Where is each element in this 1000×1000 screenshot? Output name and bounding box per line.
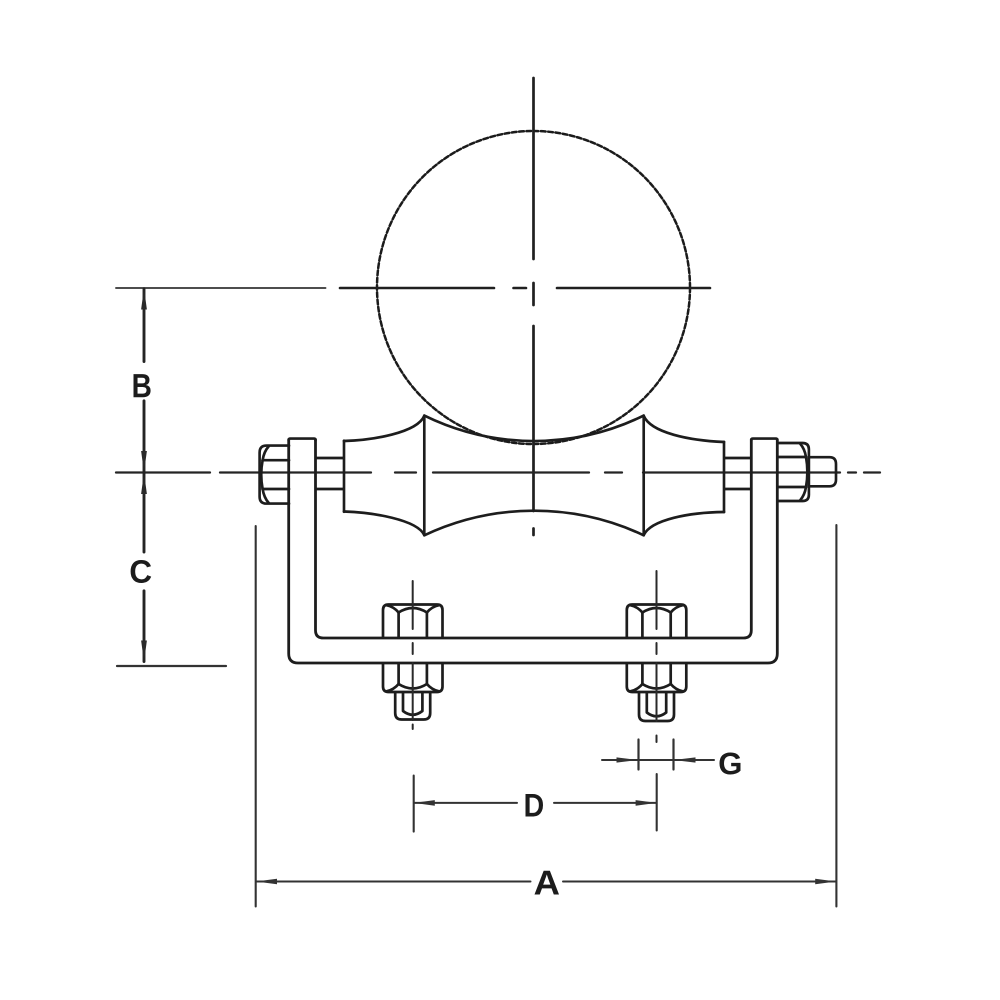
bottom-right flare <box>644 512 724 535</box>
dimension G line <box>602 759 714 761</box>
dimension D arrows <box>414 800 657 806</box>
dimension G arrows <box>617 757 696 762</box>
axle bolt tip (right) <box>810 457 837 486</box>
left bolt centerline <box>412 581 414 729</box>
bottom-left flare <box>344 512 424 536</box>
left bolt tip (bottom) <box>395 693 430 720</box>
pipe vertical centerline <box>532 78 535 535</box>
right bolt upper hex nut <box>627 605 687 638</box>
left axle shaft <box>317 458 344 489</box>
roller spool body <box>344 416 724 536</box>
right upright top cap <box>751 439 777 441</box>
dimension G extension ticks <box>639 740 674 770</box>
left bolt upper hex nut <box>383 605 443 638</box>
throat top arc <box>424 416 643 441</box>
dimension D line <box>414 802 656 804</box>
left upright top cap <box>289 439 316 441</box>
dimension A line <box>256 881 836 883</box>
dimension B line <box>143 289 146 472</box>
axle hex head (left) <box>260 446 289 504</box>
pipe (dashed circle) <box>377 131 690 444</box>
pipe horizontal centerline <box>340 287 710 290</box>
dimension A arrows <box>256 879 836 885</box>
top-left flare <box>344 416 424 441</box>
axle hex nut (right) <box>778 443 809 501</box>
bracket outer outline <box>289 440 778 664</box>
throat bottom arc <box>424 511 643 536</box>
C bottom extension line <box>117 665 226 667</box>
right bolt centerline <box>656 571 658 742</box>
right flange <box>642 416 645 536</box>
B top extension line <box>116 287 326 289</box>
label A <box>535 871 560 895</box>
dimension D extension lines <box>414 774 657 832</box>
right axle shaft <box>725 458 751 489</box>
right bolt lower hex nut <box>627 665 687 693</box>
left flange <box>423 416 426 536</box>
dimension B arrows <box>141 288 147 472</box>
label D <box>526 794 544 817</box>
dimension C line <box>143 473 146 662</box>
right bolt tip (bottom) <box>639 693 674 722</box>
label B <box>134 374 151 397</box>
dimension A extension lines <box>256 525 837 907</box>
top-right flare <box>644 416 724 442</box>
left bolt lower hex nut <box>383 665 443 693</box>
dimension C arrows <box>141 473 147 662</box>
label C <box>131 560 152 583</box>
label G <box>720 753 741 775</box>
roller axle centerline <box>116 471 880 473</box>
left hub face <box>343 441 346 512</box>
bracket inner outline <box>316 440 752 639</box>
right hub face <box>723 442 726 512</box>
